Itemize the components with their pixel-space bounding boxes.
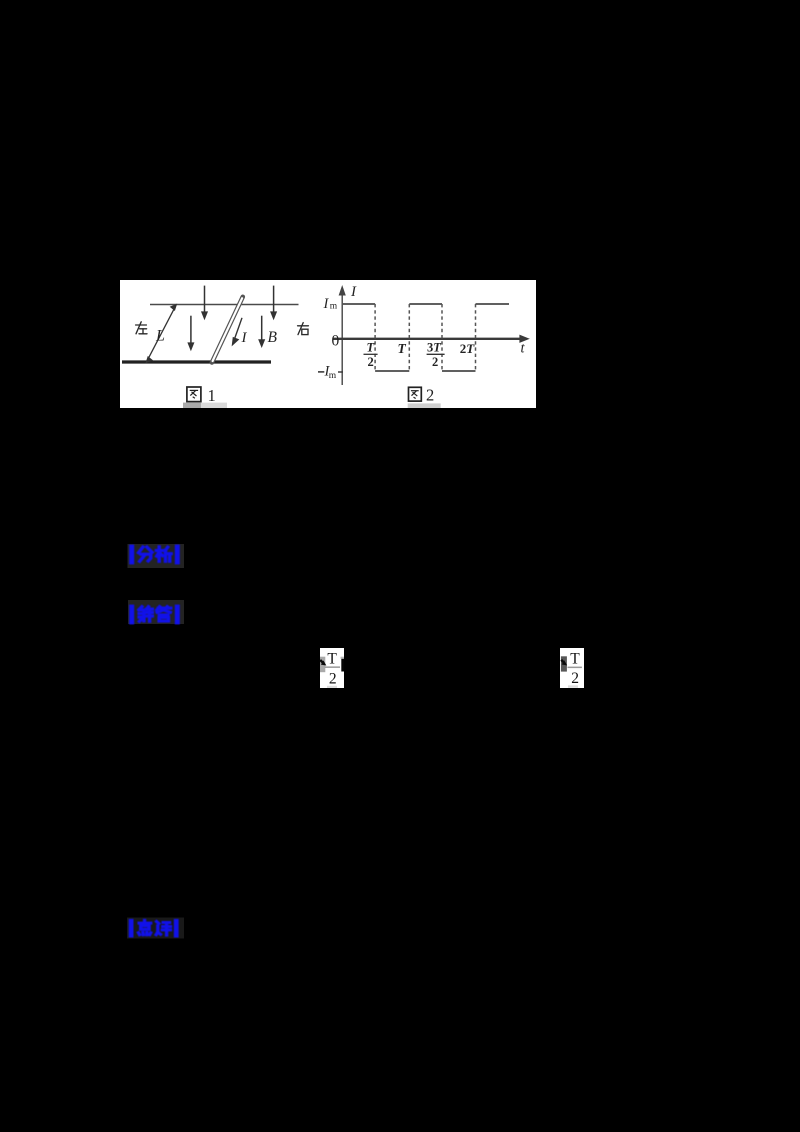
svg-text:1: 1 (208, 386, 216, 405)
label 右 (298, 323, 309, 335)
svg-text:T: T (570, 650, 580, 667)
dashed transition 1 (374, 304, 376, 371)
waveform high segment 2 (409, 303, 442, 305)
field arrow 2 (188, 316, 194, 350)
label 【点评】 (131, 920, 176, 935)
label T/2 (364, 341, 378, 370)
svg-text:2: 2 (571, 670, 579, 687)
dashed transition 2 (408, 304, 410, 371)
dashed transition 4 (475, 304, 477, 371)
dimension arrow L (146, 305, 176, 363)
current arrow I (232, 318, 242, 345)
svg-text:m: m (330, 301, 338, 311)
caption 2 smudge (408, 403, 441, 408)
svg-text:2: 2 (368, 355, 374, 369)
waveform high segment 3 (476, 303, 510, 305)
formula box 2 (T/2) (560, 648, 584, 688)
svg-text:0: 0 (332, 333, 340, 350)
I axis (339, 287, 345, 386)
label 【解答】 (132, 607, 178, 622)
svg-text:2: 2 (426, 386, 434, 405)
svg-text:I: I (350, 284, 357, 300)
label Im (323, 296, 338, 312)
label 3T/2 (427, 341, 445, 370)
svg-text:2T: 2T (460, 341, 476, 356)
caption 图 1 (187, 387, 201, 402)
waveform low segment 1 (375, 370, 409, 372)
halo 点评 (127, 918, 184, 939)
tick at -Im (338, 371, 343, 373)
halo 解答 (128, 600, 184, 624)
waveform low segment 2 (442, 370, 476, 372)
field arrow 3 (271, 286, 277, 319)
top rail (150, 304, 299, 306)
svg-text:m: m (329, 371, 337, 381)
halo 分析 (128, 544, 185, 568)
svg-text:B: B (268, 329, 278, 346)
label -Im (318, 364, 337, 381)
svg-text:I: I (241, 330, 248, 346)
waveform high segment 1 (343, 303, 375, 305)
caption 图 2 (409, 387, 422, 401)
field arrow 1 (202, 286, 208, 319)
label 【分析】 (132, 547, 178, 562)
formula box 1 (T/2) (320, 648, 344, 688)
dashed transition 3 (441, 304, 443, 371)
label 左 (136, 322, 147, 334)
t axis (333, 335, 529, 342)
svg-text:L: L (155, 328, 165, 345)
svg-text:3T: 3T (427, 341, 442, 355)
caption 1 smudge (183, 403, 201, 408)
svg-text:2: 2 (329, 670, 337, 687)
svg-text:T: T (327, 650, 337, 667)
field arrow 4 (B) (259, 316, 265, 347)
conducting rod (212, 297, 243, 363)
figure panel background (120, 280, 536, 408)
bottom rail (122, 360, 271, 363)
svg-text:T: T (398, 341, 407, 356)
svg-text:2: 2 (432, 355, 438, 369)
